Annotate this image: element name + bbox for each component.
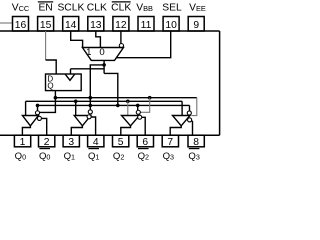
wire cell3 Q to pin5: [121, 126, 131, 135]
node busA crossing: [89, 96, 93, 100]
svg-text:3: 3: [68, 137, 74, 148]
node busB cell3: [126, 100, 130, 104]
svg-text:8: 8: [193, 137, 199, 148]
svg-text:VBB: VBB: [136, 3, 153, 14]
pin 7 box: [162, 135, 178, 147]
svg-text:VCC: VCC: [12, 3, 30, 14]
pin 15 box: [38, 17, 54, 32]
svg-text:1: 1: [86, 47, 91, 58]
svg-text:Q2: Q2: [113, 151, 124, 162]
svg-text:CLK: CLK: [87, 3, 107, 14]
svg-text:11: 11: [141, 20, 152, 31]
svg-text:0: 0: [99, 47, 104, 58]
cell4 output bubble B2: [188, 118, 192, 122]
node mux output split: [102, 63, 106, 67]
svg-text:14: 14: [65, 20, 77, 31]
cell4 gray wire from busA end: [191, 98, 196, 116]
label Q3b overline: [189, 148, 200, 150]
svg-text:Q0: Q0: [15, 151, 26, 162]
svg-text:Q3: Q3: [188, 151, 199, 162]
pin 10 box: [163, 17, 179, 32]
svg-text:CLK: CLK: [111, 3, 131, 14]
wire cell1 Qb to pin2: [41, 118, 46, 135]
svg-text:Q1: Q1: [64, 151, 75, 162]
cell3 output bubble B2: [138, 115, 142, 119]
cell1 plain input drop: [25, 101, 27, 115]
wire CLKb to mux bubble: [120, 31, 122, 43]
pin 5 box: [113, 135, 129, 147]
cell1 output bubble B2: [37, 116, 41, 120]
wire EN to D input: [46, 60, 57, 74]
wire SEL to mux select: [116, 31, 171, 58]
pin 2 box: [39, 135, 55, 147]
wire cell1 Q to pin1: [22, 126, 30, 135]
pin 3 box: [63, 135, 79, 147]
cell1 input bubble B1: [35, 111, 39, 115]
pin 12 box: [113, 17, 129, 32]
svg-text:12: 12: [115, 20, 127, 31]
pin 11 box: [138, 17, 154, 32]
label EN overline: [38, 1, 53, 3]
wire clock to FF and right branch: [71, 68, 105, 70]
stray gray wire left edge: [0, 22, 13, 24]
svg-text:1: 1: [20, 137, 26, 148]
cell3 plain input drop gray: [127, 101, 129, 115]
wire CLK to mux input 0: [96, 31, 101, 48]
svg-text:2: 2: [44, 137, 50, 148]
pin 14 box: [63, 17, 79, 32]
pin 13 box: [88, 17, 104, 32]
wire cell4 Q to pin7: [170, 126, 181, 135]
svg-text:Q3: Q3: [163, 151, 174, 162]
buffer cell2 triangle: [74, 116, 91, 126]
node busC crossing: [89, 104, 93, 108]
label Q0b overline: [39, 148, 50, 150]
svg-text:5: 5: [118, 137, 124, 148]
cell3 input bubble B1: [136, 110, 140, 114]
cell1 bubble input drop: [37, 105, 39, 110]
cell2 plain input drop: [75, 101, 77, 115]
svg-text:10: 10: [165, 20, 177, 31]
cell4 input bubble B1: [187, 111, 191, 115]
wire clock into FF wedge: [70, 69, 72, 74]
svg-text:Q0: Q0: [39, 151, 50, 162]
node FF Q to busA: [54, 96, 58, 100]
svg-text:13: 13: [90, 20, 102, 31]
flip-flop U2 box: [46, 74, 82, 91]
wire EN gray segment from pin 15: [45, 31, 47, 60]
pin 16 box: [13, 17, 29, 32]
svg-text:SEL: SEL: [162, 3, 182, 14]
wire clock branch left: [90, 65, 104, 110]
svg-text:Q2: Q2: [138, 151, 149, 162]
svg-text:16: 16: [15, 20, 27, 31]
mux U1 trapezoid: [82, 48, 123, 61]
cell3 gray dogleg to B1: [140, 98, 149, 113]
bus A enable: [55, 97, 196, 99]
pin 1 box: [14, 135, 30, 147]
package outline bottom rail: [0, 134, 220, 136]
pin 6 box: [137, 135, 153, 147]
svg-text:9: 9: [193, 20, 199, 31]
wire SCLK to mux input 1: [71, 31, 83, 48]
package outline top rail: [0, 30, 220, 32]
wire cell2 Q to pin3: [71, 126, 82, 135]
svg-text:Q: Q: [47, 82, 53, 91]
node busC cell3: [136, 104, 140, 108]
buffer cell4 triangle: [173, 116, 191, 126]
svg-text:SCLK: SCLK: [57, 3, 84, 14]
bus C: [38, 104, 190, 106]
wire cell3 Qb to pin6: [142, 117, 145, 135]
node right branch to busC: [116, 104, 120, 108]
wire cell2 Qb to pin4: [91, 117, 95, 135]
svg-text:6: 6: [142, 137, 148, 148]
buffer cell3 triangle: [122, 116, 140, 126]
cell4 plain input drop from busB end: [181, 101, 183, 115]
label Q1b overline: [88, 148, 99, 150]
node busB cell2: [74, 100, 78, 104]
svg-text:EN: EN: [38, 3, 52, 14]
label CLKb overline: [112, 1, 131, 3]
wire clock right branch: [104, 73, 118, 105]
svg-text:15: 15: [40, 20, 52, 31]
pin 9 box: [188, 17, 204, 32]
pin 8 box: [188, 135, 204, 147]
wire cell4 Qb to pin8: [191, 121, 194, 135]
label Q2b overline: [138, 148, 149, 150]
buffer cell1 triangle: [22, 116, 38, 126]
wire FF Q output: [40, 91, 56, 113]
cell2 output bubble B2: [87, 115, 91, 119]
node busA cell3 gray branch: [148, 96, 152, 100]
flip-flop clock wedge: [65, 74, 75, 80]
svg-text:Q1: Q1: [88, 151, 99, 162]
svg-text:7: 7: [167, 137, 173, 148]
cell2 input bubble B1: [88, 110, 92, 114]
mux input bubble: [119, 44, 123, 48]
bus B clock: [26, 100, 183, 102]
wire mux output: [103, 60, 105, 73]
pin 4 box: [88, 135, 104, 147]
node busC cell1: [36, 104, 40, 108]
svg-text:VEE: VEE: [189, 3, 206, 14]
cell4 bubble input drop from busC end: [189, 105, 191, 111]
svg-text:4: 4: [93, 137, 99, 148]
package outline right edge: [219, 31, 221, 135]
cell3 bubble input drop: [137, 105, 139, 110]
